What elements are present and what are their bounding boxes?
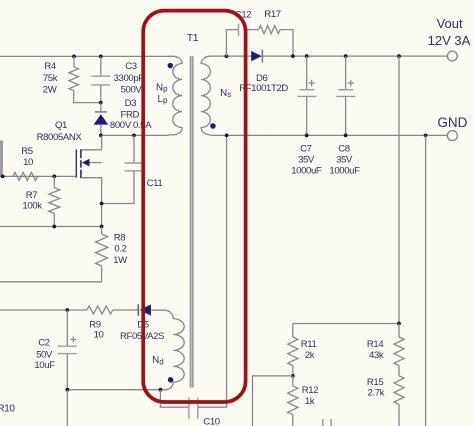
svg-text:10uF: 10uF bbox=[34, 360, 55, 371]
node - C2 bottom junction bbox=[65, 388, 69, 392]
transformer T1 primary winding Np/Lp bbox=[169, 56, 183, 135]
svg-text:0.2: 0.2 bbox=[114, 243, 126, 254]
node - C2 top junction bbox=[65, 308, 69, 312]
svg-text:C8: C8 bbox=[338, 143, 350, 154]
svg-text:R5: R5 bbox=[21, 146, 33, 157]
svg-text:100k: 100k bbox=[22, 201, 42, 212]
svg-text:Ns: Ns bbox=[220, 88, 231, 99]
wire - GND drop bbox=[425, 135, 427, 426]
node - Ns top / C12 junction bbox=[225, 54, 229, 58]
svg-text:Lp: Lp bbox=[158, 94, 168, 105]
node - C3/R4/D3 junction bbox=[99, 101, 103, 105]
wire - aux return bbox=[67, 389, 160, 391]
wire - drain node to primary winding bbox=[101, 134, 169, 136]
node - D6/R17 junction bbox=[291, 54, 295, 58]
capacitor C12 bbox=[226, 30, 238, 56]
primary polarity dot bbox=[168, 63, 174, 69]
node - C8 bottom junction bbox=[344, 134, 348, 138]
secondary polarity dot bbox=[210, 123, 216, 129]
svg-text:D3: D3 bbox=[125, 98, 137, 109]
wire - Vout feedback drop bbox=[398, 56, 400, 323]
node - drain junction bbox=[99, 134, 103, 138]
transformer T1 core bbox=[190, 56, 194, 387]
svg-text:2.7k: 2.7k bbox=[368, 388, 385, 399]
resistor R9 bbox=[87, 306, 113, 314]
svg-text:C3: C3 bbox=[125, 61, 137, 72]
svg-text:800V 0.5A: 800V 0.5A bbox=[110, 120, 152, 131]
svg-text:Vout: Vout bbox=[437, 16, 463, 31]
node - R14 top junction bbox=[397, 322, 401, 326]
svg-text:FRD: FRD bbox=[121, 109, 140, 120]
svg-text:Q1: Q1 bbox=[55, 120, 67, 131]
svg-text:1k: 1k bbox=[305, 396, 315, 407]
wire - feedback tap to left bbox=[253, 376, 293, 426]
node - left edge junction bbox=[1, 175, 5, 179]
capacitor C10 bbox=[160, 390, 188, 408]
svg-text:R12: R12 bbox=[302, 385, 318, 396]
wire - ground rail bbox=[211, 134, 448, 136]
resistor R17 bbox=[259, 26, 280, 34]
capacitor C7 (35V 1000uF) bbox=[306, 56, 308, 89]
resistor R14 (43k) bbox=[398, 324, 400, 338]
svg-text:35V: 35V bbox=[298, 154, 315, 165]
svg-text:C7: C7 bbox=[300, 143, 312, 154]
node - feedback tap junction bbox=[397, 54, 401, 58]
resistor R12 (1k) bbox=[292, 376, 294, 386]
svg-text:C11: C11 bbox=[147, 178, 163, 189]
svg-text:500V: 500V bbox=[121, 84, 143, 95]
svg-text:C10: C10 bbox=[203, 417, 219, 426]
node - C11 top junction bbox=[132, 134, 136, 138]
resistor R11 (2k) bbox=[292, 324, 294, 338]
transformer T1 auxiliary winding Nd bbox=[151, 310, 184, 390]
svg-text:R8: R8 bbox=[114, 232, 126, 243]
wire - feedback horizontal bbox=[293, 323, 399, 325]
node - C8 top junction bbox=[344, 54, 348, 58]
svg-text:43k: 43k bbox=[369, 350, 384, 361]
svg-text:R8005ANX: R8005ANX bbox=[37, 132, 83, 143]
svg-text:T1: T1 bbox=[187, 32, 199, 44]
svg-text:R4: R4 bbox=[44, 61, 57, 72]
svg-text:35V: 35V bbox=[336, 154, 353, 165]
svg-text:2W: 2W bbox=[43, 84, 58, 95]
node - R11/R12 junction bbox=[291, 374, 295, 378]
wire - input top rail bbox=[0, 55, 169, 57]
node - R4 top junction bbox=[72, 55, 76, 59]
svg-text:GND: GND bbox=[437, 115, 467, 130]
auxiliary polarity dot bbox=[168, 377, 174, 383]
component leads cut at bottom edge bbox=[322, 419, 324, 426]
resistor R5 bbox=[13, 172, 38, 180]
transistor Q1 MOSFET R8005ANX bbox=[81, 135, 102, 149]
controller edge bar (cut off at left) bbox=[0, 140, 3, 176]
node - C7 top junction bbox=[305, 54, 309, 58]
capacitor C3 bbox=[100, 56, 102, 76]
wire - source bus bbox=[0, 226, 102, 228]
wire - output rail bbox=[211, 55, 448, 57]
svg-text:C2: C2 bbox=[38, 338, 50, 349]
svg-text:10: 10 bbox=[23, 157, 33, 168]
svg-text:10: 10 bbox=[94, 330, 104, 341]
svg-text:12V 3A: 12V 3A bbox=[428, 33, 471, 48]
diode D6 (RF1001T2D, cathode right) bbox=[251, 51, 261, 61]
svg-text:3300pF: 3300pF bbox=[114, 73, 145, 84]
svg-text:1000uF: 1000uF bbox=[329, 165, 360, 176]
resistor R7 bbox=[53, 176, 55, 187]
transformer T1 secondary winding Ns bbox=[201, 56, 210, 135]
svg-text:R14: R14 bbox=[367, 339, 384, 350]
red highlight box around transformer bbox=[143, 11, 245, 402]
wire - aux line from left bbox=[0, 309, 87, 311]
svg-text:R7: R7 bbox=[26, 190, 38, 201]
resistor R15 (2.7k) bbox=[394, 376, 404, 405]
resistor R8 bbox=[96, 234, 108, 266]
node - gate/R7 junction bbox=[52, 175, 56, 179]
resistor R4 bbox=[73, 56, 75, 66]
diode D5 (RF05VA2S, cathode left) bbox=[137, 304, 139, 316]
svg-text:Nd: Nd bbox=[152, 355, 164, 366]
svg-text:Np: Np bbox=[156, 82, 168, 93]
node - Nd bottom junction bbox=[159, 388, 163, 392]
svg-text:1W: 1W bbox=[113, 255, 128, 266]
diode D3 (FRD 800V 0.5A, cathode up) bbox=[100, 103, 102, 112]
capacitor C2 bbox=[66, 310, 68, 346]
node - source/R8 junction bbox=[100, 225, 104, 229]
node - C7 bottom junction bbox=[305, 134, 309, 138]
wire - gate wire from controller bbox=[0, 175, 76, 177]
node - GND drop junction bbox=[424, 134, 428, 138]
capacitor C8 (35V 1000uF) bbox=[345, 56, 347, 89]
capacitor C11 bbox=[133, 135, 135, 162]
svg-text:R15: R15 bbox=[367, 377, 383, 388]
node - C11 return junction bbox=[100, 202, 104, 206]
svg-text:R10: R10 bbox=[0, 404, 15, 415]
svg-text:2k: 2k bbox=[305, 350, 315, 361]
wire - to R10 below bbox=[66, 390, 68, 426]
node - R7 bottom junction bbox=[52, 225, 56, 229]
node - Ns bottom / C10 junction bbox=[225, 134, 229, 138]
svg-text:R11: R11 bbox=[301, 339, 317, 350]
svg-text:R17: R17 bbox=[264, 9, 280, 20]
svg-text:1000uF: 1000uF bbox=[291, 165, 322, 176]
svg-text:50V: 50V bbox=[36, 350, 53, 361]
svg-text:75k: 75k bbox=[43, 73, 58, 84]
node - C3 top junction bbox=[99, 55, 103, 59]
